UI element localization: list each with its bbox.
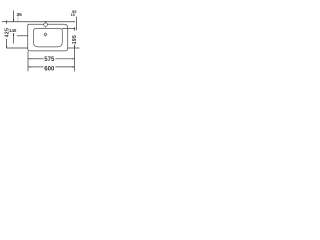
right ext arrowhead [74, 28, 76, 29]
bottom left ext line [27, 51, 29, 71]
svg-text:35: 35 [17, 12, 23, 18]
right ext line y28.6 [62, 28, 75, 30]
svg-text:575: 575 [44, 57, 55, 63]
basin outer rim [28, 24, 68, 51]
dim B up arrowhead [13, 33, 14, 36]
dim D ext continues down [74, 48, 76, 71]
faucet centerline ticks [42, 24, 45, 26]
wall line [2, 21, 75, 23]
dim C down arrowhead [6, 46, 7, 49]
dim E vertical line (right top) [76, 17, 78, 30]
right leader y48 [68, 47, 80, 49]
dim C lower segment [6, 39, 8, 48]
left leader y48 [6, 47, 28, 49]
drain hole [44, 33, 46, 35]
faucet centerline tick above [45, 21, 47, 23]
faucet centerline tick below [45, 27, 47, 28]
dim E bottom arrowhead [76, 29, 77, 31]
bottom dim 2 arrows [28, 66, 31, 67]
technical drawing: washbasin plan view with dimensions [0, 0, 80, 80]
dim D top tick [74, 27, 76, 31]
svg-text:600: 600 [44, 67, 55, 73]
dim D lower segment with arrow [74, 44, 76, 48]
drain tick right [46, 34, 49, 36]
bottom dim 1 arrows [28, 58, 31, 59]
drain tick top [44, 32, 46, 35]
dim B upper segment [13, 10, 15, 21]
mid-left leader y35.8 [17, 35, 28, 37]
small ext at x18 [17, 16, 19, 21]
dim B lower segment [13, 33, 15, 44]
dim C top tick [6, 20, 8, 23]
basin inner bowl [33, 29, 62, 47]
dim B lower arrowhead [13, 19, 14, 22]
drain tick bottom [44, 35, 46, 38]
wall line right arrowhead [73, 21, 75, 22]
bottom dim 1 line [28, 58, 44, 60]
svg-text:10: 10 [71, 12, 75, 17]
svg-text:195: 195 [72, 35, 78, 44]
faucet hole [44, 23, 48, 27]
bottom dim 2 line [28, 66, 44, 68]
svg-text:425: 425 [5, 28, 11, 38]
drain tick left [42, 34, 45, 36]
